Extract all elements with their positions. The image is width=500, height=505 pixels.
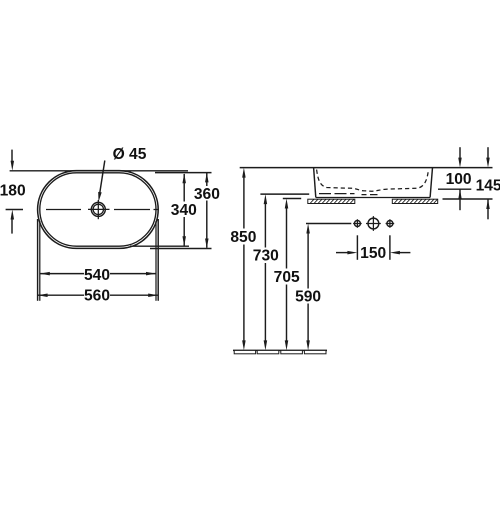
arrow 100 bottom (up) — [458, 189, 462, 199]
arrow 705 top (up) — [285, 199, 289, 209]
svg-text:180: 180 — [0, 182, 26, 199]
arrow 180 bottom (up) — [11, 210, 15, 220]
dim line 705 vertical — [286, 207, 288, 269]
dim line 590 vertical — [307, 232, 309, 289]
arrow 850 bottom (down) — [242, 340, 246, 350]
arrow 180 top (down) — [11, 161, 15, 171]
ext line right inner vertical (540) — [155, 221, 157, 301]
svg-text:360: 360 — [194, 186, 220, 203]
drain outer circle — [91, 202, 105, 216]
basin outer oval (top view) — [38, 171, 159, 249]
leader line for diameter 45 — [100, 161, 105, 195]
ext line left outer vertical (560) — [37, 219, 39, 301]
arrow 150 left (right-pointing) — [347, 251, 357, 255]
svg-text:100: 100 — [446, 171, 472, 188]
arrow 360 bottom (down) — [205, 239, 209, 249]
ext line top inner tangent (340) — [155, 172, 212, 174]
floor line — [233, 349, 327, 351]
dim line 145 vertical — [487, 147, 489, 159]
svg-text:340: 340 — [171, 202, 197, 219]
floor blocks — [234, 350, 326, 353]
drain inner circle — [93, 204, 103, 214]
svg-text:850: 850 — [230, 229, 256, 246]
faucet hole center circle — [368, 218, 379, 229]
svg-text:Ø 45: Ø 45 — [113, 146, 147, 163]
dim line 150 — [336, 252, 349, 254]
dim line 730 vertical — [264, 203, 266, 248]
dim line 850 vertical — [243, 176, 245, 229]
svg-text:705: 705 — [274, 269, 300, 286]
dim line 340 vertical — [183, 174, 185, 202]
svg-text:540: 540 — [84, 267, 110, 284]
arrow 145 top (down) — [486, 158, 490, 168]
arrow 590 bottom (down) — [306, 340, 310, 350]
arrow 730 top (up) — [264, 194, 268, 204]
arrow 145 bottom (up) — [486, 199, 490, 209]
dim line 100 vertical — [459, 147, 461, 159]
ext line 730 level — [260, 193, 309, 195]
ext line 590 level — [306, 223, 351, 225]
svg-text:730: 730 — [253, 248, 279, 265]
arrow 540 left — [40, 272, 50, 276]
ext line 100 bottom — [438, 188, 471, 190]
ext line right outer vertical (560) — [157, 219, 159, 301]
arrow 150 right (left-pointing) — [390, 251, 400, 255]
basin profile right edge — [430, 168, 432, 198]
faucet hole left circle — [354, 221, 360, 227]
dim line 360 vertical — [206, 173, 208, 186]
arrow 100 top (down) — [458, 158, 462, 168]
faucet hole right circle — [387, 221, 393, 227]
arrow 730 bottom (down) — [264, 340, 268, 350]
basin inner rim oval (top view) — [40, 173, 156, 246]
ext line top tangent (360/180) — [10, 170, 188, 172]
drain crosshair horizontal — [88, 208, 110, 210]
basin profile left edge — [314, 168, 316, 198]
drain crosshair vertical — [97, 200, 99, 219]
arrow 360 top (up) — [205, 172, 209, 182]
horizontal centerline of oval — [6, 209, 23, 211]
ext line 145 bottom — [443, 198, 493, 200]
basin profile bottom edge — [316, 197, 430, 199]
arrow leader diameter45 — [98, 192, 102, 202]
dim line 540 — [40, 273, 84, 275]
svg-text:590: 590 — [295, 288, 321, 305]
arrow 340 bottom (down) — [182, 236, 186, 246]
arrow 560 left — [38, 293, 48, 297]
arrowheads — [11, 158, 490, 351]
basin interior dashed outline — [317, 170, 429, 192]
ext line left inner vertical (540) — [39, 221, 41, 301]
arrow 850 top (up) — [242, 168, 246, 178]
countertop hatch right — [392, 199, 437, 203]
dim line 180 vertical — [11, 150, 13, 163]
arrow 340 top (up) — [182, 173, 186, 183]
arrow 590 top (up) — [306, 224, 310, 234]
svg-text:560: 560 — [84, 288, 110, 305]
arrow 540 right — [146, 272, 156, 276]
arrow 560 right — [148, 293, 158, 297]
ext line 705 level — [283, 198, 301, 200]
basin interior lower dashed line — [319, 193, 355, 195]
drain recess dashes in side view — [362, 194, 378, 196]
ext line bottom outer (360) — [150, 248, 212, 250]
ext line bottom inner (340) — [130, 245, 189, 247]
ext line faucet right vertical — [389, 235, 391, 259]
ext line faucet left vertical — [356, 235, 358, 259]
svg-text:145: 145 — [476, 177, 500, 194]
side view: top rim extension line — [240, 167, 493, 169]
countertop hatch left — [308, 199, 355, 203]
arrow 705 bottom (down) — [285, 340, 289, 350]
dim line 560 — [38, 294, 84, 296]
svg-text:150: 150 — [360, 245, 386, 262]
